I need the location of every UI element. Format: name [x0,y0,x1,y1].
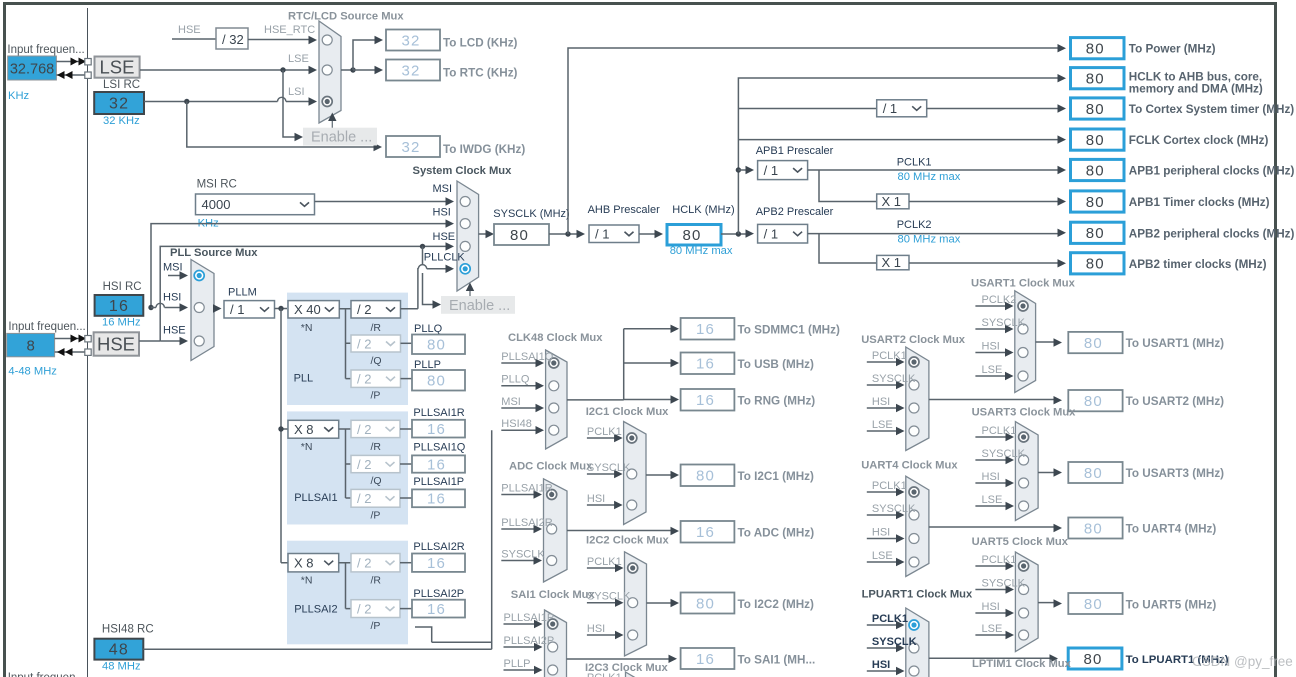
double arrow left LSE [57,71,65,79]
svg-text:X 8: X 8 [294,556,314,571]
stubs I2C2 [587,567,617,569]
svg-text:HSI: HSI [982,471,1000,483]
svg-text:16 MHz: 16 MHz [102,317,141,329]
svg-text:LSE: LSE [100,57,135,78]
svg-text:/R: /R [371,441,382,453]
svg-text:APB2 timer clocks (MHz): APB2 timer clocks (MHz) [1129,258,1267,271]
svg-text:80: 80 [1086,162,1105,179]
output box To USART3 [1068,462,1122,483]
stub HSE pll [160,340,180,342]
svg-text:HSE: HSE [178,24,201,36]
stubs USART3 [975,436,1007,438]
svg-text:32 KHz: 32 KHz [103,115,140,127]
svg-text:80: 80 [510,227,529,244]
svg-text:To SAI1 (MH...: To SAI1 (MH... [738,654,816,667]
wire CLK48 out bus [567,329,671,400]
svg-text:80: 80 [1084,465,1103,482]
double arrow left HSE [57,348,65,356]
svg-text:HSI: HSI [433,207,451,219]
mux ADC [544,479,568,582]
combo PLLP /2 [351,370,401,387]
output box To ADC [681,521,735,543]
svg-text:PLLQ: PLLQ [414,323,443,335]
combo PLLR /2 [351,301,401,318]
value box PLLSAI2P 16 [412,600,465,618]
stub MSI pll [168,275,180,277]
oscillator box HSI48 48 [94,639,143,660]
output box To UART4 [1068,518,1122,539]
svg-text:SYSCLK: SYSCLK [982,317,1026,329]
wire sai1 P out [400,497,412,499]
value box SYSCLK 80 [494,224,549,245]
svg-text:PCLK1: PCLK1 [872,613,908,625]
svg-text:USART2 Clock Mux: USART2 Clock Mux [861,334,966,346]
svg-text:PLLCLK: PLLCLK [424,252,466,264]
wire enable up arrow RTC [331,119,333,128]
svg-text:To UART4 (MHz): To UART4 (MHz) [1126,523,1217,536]
combo PLLM [224,301,275,318]
arrow USB [671,359,680,367]
output box To UART5 [1068,593,1122,614]
svg-text:HSI: HSI [982,340,1000,352]
mult box X1 APB2 [877,255,909,269]
svg-text:16: 16 [696,356,715,373]
wire USART3 out [1038,472,1054,474]
output box To USART2 [1068,390,1122,411]
wire HSI up to sysmux [151,224,446,308]
svg-text:16: 16 [109,298,129,315]
svg-text:APB2 Prescaler: APB2 Prescaler [756,206,834,218]
svg-text:X 40: X 40 [294,302,321,317]
svg-text:*N: *N [301,322,313,334]
svg-text:/P: /P [371,620,381,632]
wire USART2 out [929,399,1054,401]
arrow RNG [671,395,680,403]
svg-text:HSI: HSI [872,526,890,538]
svg-text:PLLSAI2P: PLLSAI2P [504,635,555,647]
output box To Power 80 [1071,38,1125,59]
combo PLLN X40 [288,301,339,318]
svg-text:HSI: HSI [872,396,890,408]
output box To RTC [386,60,440,81]
svg-text:KHz: KHz [8,90,30,102]
svg-text:/ 1: / 1 [883,101,897,116]
svg-text:APB1 Timer clocks (MHz): APB1 Timer clocks (MHz) [1129,196,1270,209]
output box To LCD [386,30,440,51]
wire enable up arrow system [469,289,471,296]
combo PLLSAI2P /2 [351,600,400,618]
wire LSI to IWDG [187,102,374,148]
output box To USB [681,353,735,375]
wire USART1 out [1036,341,1054,343]
svg-text:LSE: LSE [982,494,1003,506]
mux UART4 [906,476,929,576]
combo AHB prescaler [589,225,639,243]
wire HSI48 to CLK48 [143,430,491,649]
value box HCLK 80 [667,225,721,246]
svg-text:USART1 Clock Mux: USART1 Clock Mux [971,278,1076,290]
mux I2C1 [624,422,646,525]
svg-text:PLL Source Mux: PLL Source Mux [170,247,258,259]
oscillator box LSI 32 [94,92,144,114]
combo APB2 prescaler [758,224,808,243]
mux System Clock [457,181,479,291]
svg-text:X 8: X 8 [294,422,314,437]
svg-text:80: 80 [1086,256,1105,273]
svg-text:4000: 4000 [202,197,231,212]
wire sysmux out [479,233,486,235]
svg-text:HSI: HSI [872,659,890,671]
svg-text:PLLSAI1Q: PLLSAI1Q [413,442,465,454]
svg-text:/ 1: / 1 [230,302,244,317]
wire LSE in pair [56,61,85,63]
value box PLLSAI1Q 16 [412,455,465,472]
svg-text:Input frequen...: Input frequen... [8,321,85,333]
svg-text:SAI1 Clock Mux: SAI1 Clock Mux [511,589,596,601]
svg-text:To UART5 (MHz): To UART5 (MHz) [1126,599,1217,612]
wire APB1 timer branch [819,170,877,202]
combo Cortex prescaler [877,100,927,117]
svg-text:*N: *N [301,441,313,453]
svg-text:APB1 Prescaler: APB1 Prescaler [756,145,834,157]
wire ADC out [567,530,671,532]
node square LSE b [85,72,91,78]
svg-text:HSI: HSI [982,601,1000,613]
svg-text:To RTC (KHz): To RTC (KHz) [443,67,518,80]
svg-text:80: 80 [1084,335,1103,352]
combo PLLSAI1N X8 [288,420,339,438]
svg-text:HSI: HSI [587,623,605,635]
svg-text:Input frequen...: Input frequen... [7,44,84,56]
wire HSE in pair [55,338,85,340]
svg-text:80: 80 [682,227,701,244]
svg-text:PLLSAI1: PLLSAI1 [294,492,337,504]
combo PLLQ /2 [351,335,401,352]
wire X8a to dividers [339,429,351,498]
output box To RNG [681,389,735,411]
svg-text:PCLK1: PCLK1 [872,350,907,362]
stubs UART4 [867,491,898,493]
svg-text:To LCD (KHz): To LCD (KHz) [443,37,518,50]
mux UART5 [1015,552,1038,652]
node square HSE b [85,349,91,355]
svg-text:/ 32: / 32 [222,32,244,47]
wire PLLM out [275,308,289,310]
stubs LPUART1 [867,624,898,626]
svg-text:memory and DMA (MHz): memory and DMA (MHz) [1129,83,1263,96]
svg-text:16: 16 [696,524,715,541]
value box PLLSAI1P 16 [412,489,465,507]
svg-text:X 1: X 1 [882,194,902,209]
svg-text:16: 16 [696,321,715,338]
svg-text:80: 80 [1086,101,1105,118]
output box To SDMMC1 [681,318,735,340]
output box APB2 timer 80 [1071,253,1125,274]
svg-text:80: 80 [1086,41,1105,58]
wire X1 APB1 out [909,201,1058,203]
wire I2C1 out [646,474,671,476]
svg-text:LSI RC: LSI RC [103,79,140,91]
svg-text:PLLSAI1P: PLLSAI1P [504,612,555,624]
svg-text:16: 16 [427,491,446,508]
svg-text:80 MHz max: 80 MHz max [898,171,961,183]
output box To IWDG [386,136,440,157]
wire SAI1 out [567,658,670,660]
stubs ADC [501,494,535,496]
output box To USART1 [1068,332,1122,353]
output box APB1 periph 80 [1071,159,1125,180]
stubs UART5 [975,565,1007,567]
svg-text:32: 32 [401,32,420,49]
wire sysclk up to power [568,48,1058,234]
double arrow right HSE [71,335,79,343]
wire APB2 out [808,233,1058,235]
svg-text:To SDMMC1 (MHz): To SDMMC1 (MHz) [738,324,840,337]
mux CLK48 [546,350,567,449]
svg-text:SYSCLK: SYSCLK [872,636,917,648]
svg-text:PCLK1: PCLK1 [897,157,932,169]
svg-text:/P: /P [371,390,381,402]
wire X8b to dividers [339,563,351,609]
svg-text:/ 2: / 2 [357,302,371,317]
output box To I2C1 [681,465,735,487]
svg-text:To ADC (MHz): To ADC (MHz) [738,527,815,540]
wire LSE to mux [140,69,309,71]
svg-text:UART4 Clock Mux: UART4 Clock Mux [861,459,958,471]
svg-text:PCLK1: PCLK1 [587,426,622,438]
svg-text:PLLSAI1R: PLLSAI1R [501,482,552,494]
svg-text:PCLK1: PCLK1 [982,425,1017,437]
svg-text:SYSCLK: SYSCLK [872,503,916,515]
svg-text:To I2C1 (MHz): To I2C1 (MHz) [738,470,815,483]
svg-text:PCLK1: PCLK1 [982,554,1017,566]
wire HCLK vertical bus [738,78,1058,234]
svg-text:CLK48 Clock Mux: CLK48 Clock Mux [508,332,603,344]
svg-text:PLLSAI1R: PLLSAI1R [413,407,464,419]
svg-text:To USART1 (MHz): To USART1 (MHz) [1126,337,1225,350]
svg-text:HSI48: HSI48 [501,418,532,430]
oscillator box HSI 16 [95,295,144,316]
svg-text:PCLK1: PCLK1 [587,556,622,568]
svg-text:PLLP: PLLP [504,658,531,670]
svg-text:LSE: LSE [288,53,309,65]
svg-text:16: 16 [427,601,446,618]
svg-text:80: 80 [1084,651,1103,668]
svg-text:SYSCLK (MHz): SYSCLK (MHz) [493,208,569,220]
svg-text:HSI48 RC: HSI48 RC [102,624,154,636]
svg-text:To Cortex System timer (MHz): To Cortex System timer (MHz) [1129,103,1294,116]
stubs I2C1 [587,437,616,439]
wire APB2 timer branch [819,234,877,263]
svg-text:I2C1 Clock Mux: I2C1 Clock Mux [586,406,669,418]
value box PLLSAI2R 16 [412,554,465,572]
svg-text:/R: /R [371,322,382,334]
wire LSE to enable [283,70,295,137]
value box PLLP 80 [412,370,465,391]
stubs CLK48 [501,362,537,364]
stubs SAI1 [504,623,536,625]
svg-text:PLLSAI1P: PLLSAI1P [413,476,464,488]
svg-text:/ 2: / 2 [357,601,371,616]
svg-text:80: 80 [696,595,715,612]
svg-text:X 1: X 1 [882,255,902,270]
svg-text:PLLSAI2: PLLSAI2 [294,604,337,616]
svg-text:SYSCLK: SYSCLK [587,462,631,474]
svg-text:SYSCLK: SYSCLK [872,373,916,385]
svg-text:/P: /P [371,510,381,522]
wire HSI to pllmux [151,307,156,309]
svg-text:16: 16 [427,555,446,572]
svg-text:48 MHz: 48 MHz [102,661,141,673]
source box HSE [94,332,139,355]
svg-text:Input frequen...: Input frequen... [8,672,85,677]
svg-text:AHB Prescaler: AHB Prescaler [588,204,660,216]
combo MSI RC 4000 [196,194,315,215]
panel PLLSAI1 [287,411,408,524]
svg-text:PLLQ: PLLQ [501,374,530,386]
svg-text:HCLK (MHz): HCLK (MHz) [672,204,734,216]
wire sai1 R out [400,428,412,430]
svg-text:LPUART1 Clock Mux: LPUART1 Clock Mux [862,589,973,601]
combo PLLSAI2N X8 [288,554,339,572]
double arrow right LSE [71,58,79,66]
svg-text:CSDN @py_free: CSDN @py_free [1192,654,1293,669]
svg-text:HSE: HSE [433,231,456,243]
wire HSE vertical to sysmux [139,246,446,341]
svg-text:LSI: LSI [288,86,305,98]
svg-text:16: 16 [427,421,446,438]
svg-text:To IWDG (KHz): To IWDG (KHz) [443,143,525,156]
svg-text:80: 80 [1086,71,1105,88]
svg-text:80: 80 [696,468,715,485]
svg-text:80 MHz max: 80 MHz max [898,234,961,246]
value box PLLQ 80 [412,335,465,355]
combo PLLSAI1P /2 [351,489,400,507]
wire APB1 out [808,169,1058,171]
mux USART3 [1015,422,1038,521]
svg-text:32.768: 32.768 [10,62,54,78]
wire P out [401,378,413,380]
svg-text:PCLK1: PCLK1 [587,672,622,677]
svg-text:/ 1: / 1 [764,227,778,242]
svg-text:*N: *N [301,575,313,587]
svg-text:To RNG (MHz): To RNG (MHz) [738,395,816,408]
svg-text:LSE: LSE [982,623,1003,635]
svg-text:PLLSAI2P: PLLSAI2P [413,588,464,600]
wire AHB to HCLK [639,233,655,235]
svg-text:USART3 Clock Mux: USART3 Clock Mux [972,407,1077,419]
input frequency box 32.768 [8,56,57,80]
svg-text:16: 16 [427,456,446,473]
wire UART4 out [929,526,1054,528]
mux RTC/LCD [319,21,341,123]
svg-text:PLLSAI2R: PLLSAI2R [501,517,552,529]
svg-text:/R: /R [371,575,382,587]
svg-text:HSI: HSI [163,292,181,304]
wire sai2 P out [400,608,412,610]
output box To LPUART1 [1068,648,1122,669]
svg-text:MSI: MSI [501,396,521,408]
svg-text:80: 80 [427,373,446,390]
output box APB2 periph 80 [1071,222,1125,243]
svg-text:/ 2: / 2 [357,457,371,472]
wire X40 to dividers [339,309,351,379]
svg-text:/ 2: / 2 [357,556,371,571]
output box APB1 timer 80 [1071,191,1125,212]
svg-text:To USART3 (MHz): To USART3 (MHz) [1126,467,1225,480]
value box PLLSAI1R 16 [412,420,465,438]
svg-text:HSE_RTC: HSE_RTC [264,24,315,36]
wire cortex to box [927,108,1058,110]
wire FCLK line [738,139,1058,141]
button Enable RTC [303,128,377,146]
output box FCLK 80 [1071,129,1125,150]
svg-text:SYSCLK: SYSCLK [982,577,1026,589]
svg-text:/ 2: / 2 [357,491,371,506]
wire PLLR to PLLCLK [401,269,419,309]
source box LSE [95,57,140,78]
svg-text:MSI: MSI [433,183,453,195]
svg-text:80: 80 [1084,520,1103,537]
svg-text:UART5 Clock Mux: UART5 Clock Mux [972,536,1069,548]
svg-text:80: 80 [1086,225,1105,242]
mux USART1 [1015,291,1036,393]
svg-text:80: 80 [427,337,446,354]
mux PLL Source [191,260,214,361]
wire PLLM down bus [281,309,288,563]
svg-text:HSI RC: HSI RC [103,281,142,293]
wire X1 APB2 out [909,262,1058,264]
svg-text:FCLK Cortex clock (MHz): FCLK Cortex clock (MHz) [1129,134,1269,147]
svg-text:HSE: HSE [97,334,135,355]
stubs USART2 [867,361,898,363]
arrow SDMMC [671,325,680,333]
wire LSI to mux [144,101,278,103]
svg-text:APB2 peripheral clocks (MHz): APB2 peripheral clocks (MHz) [1129,227,1295,240]
divider box /32 [216,28,248,49]
combo APB1 prescaler [758,161,808,180]
svg-text:/ 1: / 1 [764,163,778,178]
wire UART5 out [1038,602,1054,604]
mux I2C2 [625,552,647,656]
wire sysclk to AHB [549,233,577,235]
svg-text:To USART2 (MHz): To USART2 (MHz) [1126,395,1225,408]
svg-text:/ 2: / 2 [357,422,371,437]
wire HSE to div32 [172,38,216,40]
svg-text:LPTIM1 Clock Mux: LPTIM1 Clock Mux [972,658,1072,670]
node square HSE a [85,336,91,342]
svg-text:APB1 peripheral clocks (MHz): APB1 peripheral clocks (MHz) [1129,165,1295,178]
svg-text:Enable ...: Enable ... [449,298,510,314]
wire LPUART1 out [929,657,1050,659]
svg-text:32: 32 [401,139,420,156]
svg-text:PCLK2: PCLK2 [897,219,932,231]
svg-text:/ 2: / 2 [357,336,371,351]
combo PLLSAI1Q /2 [351,455,400,472]
wire MSI to sysmux [315,201,447,203]
svg-text:/Q: /Q [371,355,382,367]
svg-text:PLLSAI2R: PLLSAI2R [413,541,464,553]
wire to APB1 [736,167,741,172]
mux SAI1 [545,610,567,677]
svg-text:48: 48 [109,642,129,659]
svg-text:PCLK2: PCLK2 [982,294,1017,306]
svg-text:/ 1: / 1 [595,227,609,242]
wire pllmux out [213,308,216,310]
svg-text:To Power (MHz): To Power (MHz) [1129,43,1216,56]
panel PLLSAI2 [287,541,408,645]
svg-text:80: 80 [1084,393,1103,410]
